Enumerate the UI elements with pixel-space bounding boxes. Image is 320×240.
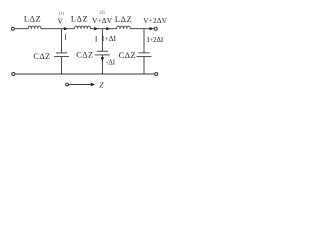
svg-text:CΔZ: CΔZ [119, 51, 136, 60]
svg-text:I+2ΔI: I+2ΔI [147, 36, 164, 44]
svg-text:LΔZ: LΔZ [115, 15, 132, 24]
svg-text:(2): (2) [100, 10, 105, 15]
svg-text:(1): (1) [59, 11, 64, 16]
svg-text:V+2ΔV: V+2ΔV [143, 16, 167, 25]
svg-text:LΔZ: LΔZ [71, 15, 88, 24]
svg-text:LΔZ: LΔZ [24, 15, 41, 24]
svg-text:V+ΔV: V+ΔV [92, 16, 113, 25]
svg-text:Z: Z [99, 80, 104, 89]
svg-text:I: I [64, 33, 67, 42]
svg-text:CΔZ: CΔZ [33, 52, 50, 61]
svg-text:-ΔI: -ΔI [106, 59, 116, 66]
svg-text:CΔZ: CΔZ [76, 51, 93, 60]
svg-text:I: I [95, 34, 98, 43]
svg-text:I+ΔI: I+ΔI [102, 34, 117, 43]
svg-text:V: V [57, 17, 63, 26]
